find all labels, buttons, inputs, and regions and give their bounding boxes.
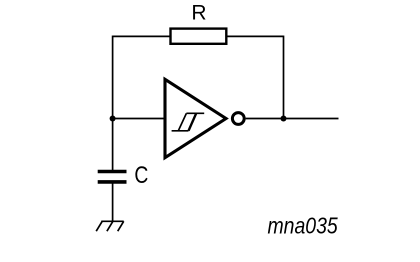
- wire: resistor left lead to left rail corner: [113, 35, 171, 37]
- wire: input node down to capacitor top plate: [112, 119, 114, 171]
- wire: resistor right lead to right rail corner: [226, 35, 283, 37]
- hysteresis symbol inside inverter: [172, 113, 205, 131]
- node: junction dot at inverter input: [110, 116, 116, 122]
- svg-text:C: C: [134, 161, 148, 189]
- svg-text:mna035: mna035: [268, 213, 339, 239]
- resistor R: [171, 29, 227, 44]
- capacitor C: [98, 172, 127, 182]
- wire: left vertical rail from top corner down to input node: [112, 36, 114, 119]
- inverter output bubble: [232, 113, 244, 125]
- wire: input node to inverter input: [113, 118, 165, 120]
- wire: right vertical rail down to output node: [283, 36, 285, 119]
- node: junction dot on output wire: [281, 116, 287, 122]
- wire: capacitor bottom plate down to ground: [112, 184, 114, 222]
- svg-text:R: R: [191, 2, 206, 25]
- ground: [96, 221, 124, 231]
- op-amp U1: schmitt-trigger inverter triangle: [165, 79, 226, 157]
- wire: inverter output to the right: [246, 118, 339, 120]
